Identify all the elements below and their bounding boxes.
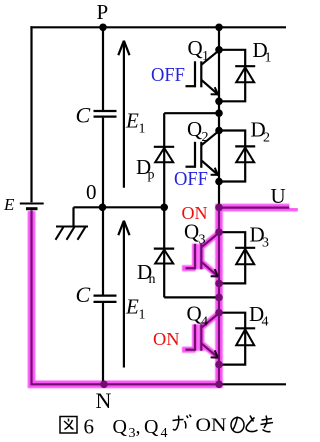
svg-text:1: 1	[202, 49, 209, 64]
svg-text:C: C	[76, 103, 91, 128]
svg-text:1: 1	[139, 122, 146, 137]
svg-text:ON: ON	[182, 203, 208, 223]
svg-text:U: U	[271, 184, 286, 208]
svg-text:C: C	[76, 282, 91, 307]
svg-text:OFF: OFF	[174, 168, 208, 190]
svg-text:0: 0	[86, 180, 97, 204]
svg-text:2: 2	[202, 130, 209, 145]
svg-text:Q: Q	[184, 220, 199, 244]
svg-text:3: 3	[262, 236, 269, 251]
svg-text:p: p	[148, 168, 155, 183]
svg-text:ON: ON	[196, 415, 227, 436]
svg-text:3: 3	[199, 233, 206, 248]
svg-text:OFF: OFF	[151, 64, 185, 86]
svg-text:n: n	[149, 272, 156, 287]
svg-text:1: 1	[139, 308, 146, 323]
svg-text:1: 1	[265, 51, 272, 66]
svg-text:4: 4	[262, 315, 269, 330]
svg-text:N: N	[96, 388, 112, 413]
svg-text:E: E	[125, 109, 139, 133]
svg-text:E: E	[3, 195, 15, 214]
svg-text:Q: Q	[188, 36, 203, 60]
svg-text:E: E	[125, 295, 139, 319]
svg-text:3: 3	[129, 426, 136, 441]
svg-text:P: P	[97, 0, 109, 24]
svg-text:4: 4	[201, 315, 208, 330]
svg-text:6: 6	[84, 415, 95, 439]
svg-text:Q: Q	[113, 416, 128, 438]
svg-text:4: 4	[161, 426, 168, 441]
svg-text:2: 2	[263, 131, 270, 146]
svg-text:Q: Q	[187, 117, 202, 141]
svg-text:Q: Q	[144, 416, 159, 438]
svg-text:ON: ON	[153, 329, 180, 349]
svg-text:,: ,	[136, 416, 141, 438]
svg-text:Q: Q	[187, 302, 202, 326]
